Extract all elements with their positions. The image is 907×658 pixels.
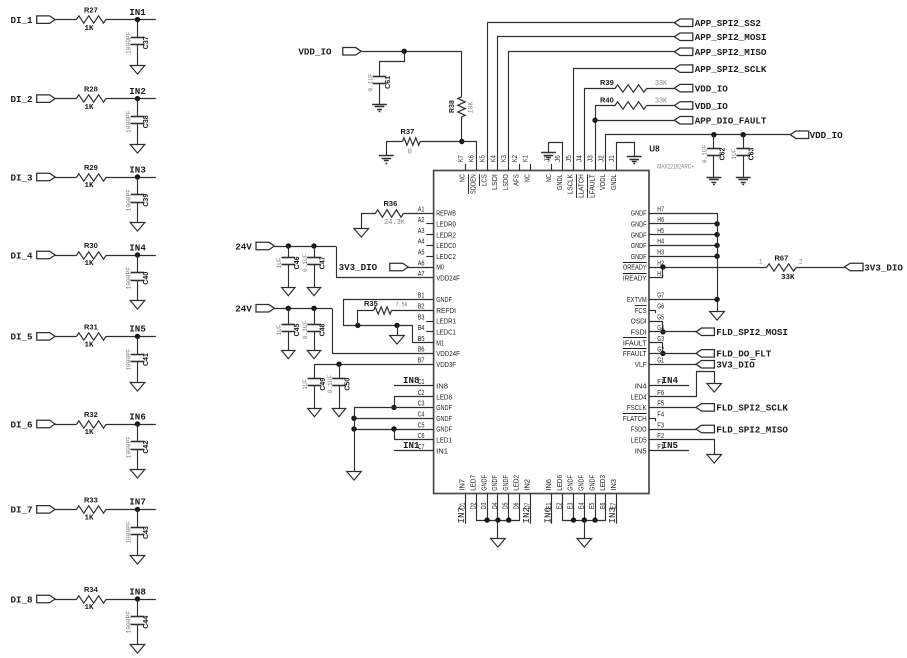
svg-text:G5: G5 (657, 314, 664, 321)
wire (549, 143, 563, 171)
svg-text:0.1UF: 0.1UF (302, 253, 309, 272)
svg-text:C4: C4 (418, 412, 425, 419)
svg-text:IN5: IN5 (662, 440, 679, 451)
svg-text:B7: B7 (418, 358, 425, 365)
node IN7 (129, 497, 146, 512)
svg-text:K3: K3 (501, 155, 508, 162)
resistor R67 (759, 254, 803, 283)
svg-text:IN4: IN4 (662, 375, 679, 386)
svg-text:VDD3F: VDD3F (436, 360, 456, 369)
svg-text:A6: A6 (418, 260, 425, 267)
pin B7 VDD3F (418, 358, 457, 369)
wire (743, 156, 745, 178)
svg-text:B3: B3 (418, 314, 425, 321)
svg-text:1K: 1K (85, 604, 95, 612)
wire (137, 535, 139, 556)
svg-text:R28: R28 (84, 85, 98, 94)
part number MAX22192ARC+ (657, 164, 694, 170)
pin F5 FSCLK (627, 401, 664, 412)
net label 3V3_DIO (339, 262, 409, 273)
pin K4 LSDI (490, 155, 499, 190)
resistor R28 (76, 85, 106, 112)
net label 3V3_DIO (696, 360, 756, 371)
refdes U8 (649, 145, 660, 154)
svg-text:DI_5: DI_5 (11, 332, 34, 343)
capacitor C45 (276, 323, 301, 336)
svg-text:1000PF: 1000PF (125, 267, 132, 290)
svg-text:G6: G6 (657, 304, 664, 311)
pin B4 LEDC1 (418, 325, 456, 336)
svg-text:C44: C44 (143, 616, 150, 629)
ground (130, 301, 145, 310)
wire (584, 494, 586, 521)
capacitor C42 (125, 436, 150, 459)
pin B2 REFDI (418, 304, 456, 315)
svg-text:B2: B2 (418, 304, 425, 311)
pin H5 GNDF (631, 228, 664, 239)
port DI_7 (11, 505, 56, 516)
wire (354, 429, 434, 431)
net label IN5 (649, 440, 689, 451)
power tag VDD_IO (790, 130, 843, 141)
wire (288, 246, 290, 257)
junction (660, 329, 665, 334)
capacitor C63 (731, 147, 756, 160)
svg-text:DI_1: DI_1 (11, 15, 34, 26)
pin G2 FFAULT (623, 347, 664, 358)
svg-text:1000PF: 1000PF (125, 436, 132, 459)
wire (408, 267, 433, 269)
ground (710, 312, 725, 321)
wire (650, 268, 663, 278)
svg-text:R33: R33 (84, 495, 98, 504)
svg-text:1000PF: 1000PF (125, 31, 132, 54)
junction (660, 351, 665, 356)
svg-text:IREADY: IREADY (623, 274, 647, 283)
svg-text:M1: M1 (436, 338, 444, 347)
pin J1 GNDL (609, 155, 618, 190)
wire (55, 177, 77, 179)
pin F3 FSDO (631, 422, 664, 433)
capacitor C44 (125, 611, 150, 634)
junction (582, 517, 587, 522)
port DI_3 (11, 172, 56, 183)
wire (106, 336, 156, 338)
capacitor C37 (125, 31, 150, 54)
pin A1 REFWB (418, 206, 456, 217)
svg-text:GNDF: GNDF (490, 475, 499, 491)
wire (647, 105, 675, 107)
svg-text:0.1UF: 0.1UF (302, 320, 309, 339)
svg-text:LEDR1: LEDR1 (436, 317, 456, 326)
svg-text:C45: C45 (294, 323, 301, 336)
svg-text:LFAULT: LFAULT (587, 174, 596, 198)
junction (459, 139, 464, 144)
wire (106, 424, 156, 426)
svg-text:GNDL: GNDL (609, 174, 618, 190)
svg-text:GNDF: GNDF (566, 475, 575, 491)
svg-text:FLD_DO_FLT: FLD_DO_FLT (716, 349, 772, 360)
pin C2 LED8 (418, 390, 452, 401)
svg-text:A4: A4 (418, 239, 425, 246)
svg-text:3V3_DIO: 3V3_DIO (864, 262, 903, 273)
wire (477, 494, 520, 521)
pin E1 IN6 (544, 479, 553, 509)
svg-text:C47: C47 (320, 256, 327, 269)
wire (574, 69, 675, 171)
junction (286, 243, 291, 248)
svg-text:10K: 10K (467, 102, 474, 114)
wire (137, 599, 139, 617)
svg-text:VDD24F: VDD24F (436, 349, 460, 358)
wire (713, 156, 715, 178)
svg-text:A2: A2 (418, 217, 425, 224)
svg-text:GNDF: GNDF (436, 403, 452, 412)
svg-text:24V: 24V (235, 304, 252, 315)
wire (796, 267, 845, 269)
wire (649, 223, 717, 225)
net label 3V3_DIO (845, 262, 904, 273)
ground (130, 223, 145, 232)
wire (488, 23, 675, 171)
svg-text:B1: B1 (418, 293, 425, 300)
resistor R27 (76, 6, 106, 33)
svg-text:1UF: 1UF (276, 324, 283, 335)
wire (314, 264, 316, 287)
svg-text:R32: R32 (84, 410, 98, 419)
svg-text:GNDL: GNDL (555, 174, 564, 190)
port DI_8 (11, 594, 56, 605)
capacitor C38 (125, 110, 150, 133)
wire (595, 120, 674, 122)
svg-text:VDD_IO: VDD_IO (298, 47, 332, 58)
wire (650, 372, 715, 397)
wire (487, 494, 489, 521)
port DI_4 (11, 250, 56, 261)
pin E7 IN3 (609, 479, 618, 509)
svg-text:APP_SPI2_MISO: APP_SPI2_MISO (695, 47, 767, 58)
svg-text:G3: G3 (657, 336, 664, 343)
capacitor C40 (125, 267, 150, 290)
svg-text:LSCLK: LSCLK (566, 174, 575, 194)
junction (660, 264, 665, 269)
net label IN7 (456, 494, 467, 524)
ground (736, 178, 751, 185)
svg-text:1000PF: 1000PF (125, 611, 132, 634)
svg-text:IN1: IN1 (403, 440, 420, 451)
svg-text:F3: F3 (657, 422, 664, 429)
wire (573, 494, 575, 521)
svg-text:C43: C43 (143, 526, 150, 539)
pin E3 GNDF (566, 475, 575, 510)
wire (339, 386, 341, 408)
wire (137, 177, 139, 195)
svg-text:1K: 1K (85, 25, 95, 33)
ground (347, 472, 362, 481)
wire (137, 99, 139, 117)
pin B5 M1 (418, 336, 444, 347)
resistor R29 (76, 163, 106, 190)
pin H3 GNDF (631, 250, 664, 261)
svg-text:FCS: FCS (635, 306, 647, 315)
wire (137, 449, 139, 470)
svg-text:1K: 1K (85, 429, 95, 437)
pin F4 FLATCH (623, 412, 664, 423)
resistor R39 (600, 78, 668, 92)
pin H1 IREADY (623, 271, 664, 282)
junction (311, 306, 316, 311)
svg-text:J4: J4 (577, 155, 584, 162)
svg-text:B6: B6 (418, 347, 425, 354)
wire (508, 494, 510, 521)
wire (649, 234, 717, 236)
svg-text:C61: C61 (385, 76, 392, 89)
junction (592, 118, 597, 123)
svg-text:1K: 1K (85, 515, 95, 523)
svg-text:1000PF: 1000PF (125, 348, 132, 371)
junction (394, 323, 399, 328)
capacitor C39 (125, 189, 150, 212)
svg-text:GNDF: GNDF (479, 475, 488, 491)
ground (130, 645, 145, 654)
svg-text:IFAULT: IFAULT (623, 338, 647, 347)
svg-text:C42: C42 (143, 441, 150, 454)
svg-text:R30: R30 (84, 241, 98, 250)
svg-text:J3: J3 (588, 155, 595, 162)
svg-text:R38: R38 (449, 100, 456, 113)
wire (337, 247, 434, 278)
wire (397, 325, 399, 335)
wire (386, 141, 402, 143)
wire (137, 280, 139, 301)
svg-text:1UF: 1UF (276, 257, 283, 268)
wire (743, 135, 745, 149)
svg-text:K2: K2 (512, 155, 519, 162)
wire (137, 624, 139, 645)
svg-text:F6: F6 (657, 390, 664, 397)
svg-text:1000PF: 1000PF (125, 521, 132, 544)
svg-text:LSDO: LSDO (501, 174, 510, 190)
junction (506, 517, 511, 522)
svg-text:LSDI: LSDI (490, 174, 499, 190)
wire (137, 336, 139, 354)
pin H6 GNDF (631, 217, 664, 228)
wire (649, 407, 696, 409)
svg-text:C50: C50 (345, 378, 352, 391)
svg-text:IN8: IN8 (403, 375, 420, 386)
svg-text:GNDF: GNDF (631, 220, 647, 229)
svg-text:B4: B4 (418, 325, 425, 332)
svg-text:IN3: IN3 (129, 164, 146, 175)
svg-text:0.1UF: 0.1UF (367, 73, 374, 92)
ground (379, 156, 394, 164)
wire (649, 299, 717, 301)
svg-text:GNDF: GNDF (631, 209, 647, 218)
wire (137, 124, 139, 145)
wire (137, 20, 139, 38)
resistor R35 (364, 299, 408, 314)
ground (308, 409, 321, 417)
svg-text:IN2: IN2 (523, 479, 532, 491)
wire (314, 364, 316, 379)
resistor R40 (600, 95, 668, 109)
pin A7 VDD24F (418, 271, 461, 282)
wire (462, 142, 477, 171)
wire (379, 84, 381, 104)
svg-text:1K: 1K (85, 104, 95, 112)
svg-text:1000PF: 1000PF (125, 110, 132, 133)
pin H4 GNDF (631, 239, 664, 250)
pin D4 GNDF (490, 475, 499, 510)
svg-text:LED8: LED8 (436, 392, 452, 401)
svg-text:GNDF: GNDF (436, 425, 452, 434)
wire (137, 255, 139, 273)
junction (711, 132, 716, 137)
port DI_6 (11, 419, 56, 430)
wire (461, 51, 463, 97)
svg-text:2: 2 (799, 259, 803, 266)
pin C3 GNDF (418, 401, 453, 412)
svg-text:K5: K5 (480, 155, 487, 162)
capacitor C46 (276, 256, 301, 269)
wire (55, 98, 77, 100)
junction (336, 362, 341, 367)
svg-text:IN8: IN8 (436, 382, 448, 391)
svg-text:DI_7: DI_7 (11, 505, 33, 516)
svg-text:REFDI: REFDI (436, 306, 456, 315)
pin D7 IN2 (523, 479, 532, 509)
wire (55, 599, 77, 601)
pin C1 IN8 (418, 379, 448, 390)
pin K1 NC (523, 155, 532, 182)
svg-text:IN8: IN8 (129, 586, 146, 597)
wire (596, 106, 616, 171)
wire (137, 202, 139, 223)
pin G1 VLF (635, 358, 664, 369)
svg-text:7.5K: 7.5K (396, 301, 408, 308)
svg-text:IN4: IN4 (129, 242, 146, 253)
node IN5 (129, 324, 146, 339)
port DI_2 (11, 94, 56, 105)
svg-text:1: 1 (759, 259, 763, 266)
wire (354, 418, 434, 420)
svg-text:FSCLK: FSCLK (627, 403, 647, 412)
svg-text:1000PF: 1000PF (125, 189, 132, 212)
ground (491, 539, 506, 548)
svg-text:VDDL: VDDL (598, 174, 607, 190)
wire (563, 494, 606, 521)
svg-text:3V3_DIO: 3V3_DIO (716, 360, 755, 371)
svg-text:IN3: IN3 (607, 507, 618, 524)
svg-text:NC: NC (458, 174, 467, 182)
svg-text:C38: C38 (143, 115, 150, 128)
resistor R34 (76, 585, 106, 612)
wire (288, 308, 290, 324)
svg-text:R67: R67 (775, 254, 789, 263)
junction (351, 426, 356, 431)
svg-text:R40: R40 (600, 95, 614, 104)
svg-text:IN4: IN4 (635, 382, 647, 391)
wire (314, 364, 433, 366)
port APP_SPI2_SS2 (674, 18, 760, 29)
node IN3 (129, 164, 146, 179)
svg-text:APP_SPI2_SS2: APP_SPI2_SS2 (695, 18, 761, 29)
junction (714, 297, 719, 302)
svg-text:A5: A5 (418, 250, 425, 257)
pin C4 GNDF (418, 412, 453, 423)
pin B3 LEDR1 (418, 314, 456, 325)
svg-text:33K: 33K (655, 97, 668, 105)
ground (307, 288, 320, 296)
svg-text:FSDO: FSDO (631, 425, 647, 434)
wire (649, 353, 696, 355)
svg-text:OSDI: OSDI (631, 317, 647, 326)
junction (714, 232, 719, 237)
svg-text:C39: C39 (143, 194, 150, 207)
svg-text:LEDC1: LEDC1 (436, 328, 456, 337)
svg-text:IN5: IN5 (129, 324, 146, 335)
svg-text:J6: J6 (555, 155, 562, 162)
wire (497, 520, 499, 538)
wire (509, 52, 675, 171)
wire (358, 311, 374, 326)
pin J2 VDDL (598, 155, 607, 190)
pin K5 LCS (479, 155, 488, 186)
junction (571, 517, 576, 522)
wire (288, 264, 290, 287)
wire (649, 331, 696, 333)
wire (137, 362, 139, 383)
wire (314, 332, 316, 351)
svg-text:GNDF: GNDF (436, 414, 452, 423)
resistor R31 (76, 322, 106, 349)
ground (307, 351, 320, 359)
svg-text:3V3_DIO: 3V3_DIO (339, 262, 378, 273)
svg-text:LED1: LED1 (436, 436, 452, 445)
junction (355, 323, 360, 328)
power tag VDD_IO (674, 101, 728, 112)
svg-text:VDD24F: VDD24F (436, 274, 460, 283)
pin F6 LED4 (631, 390, 664, 401)
ground (130, 470, 145, 479)
junction (741, 132, 746, 137)
wire (650, 343, 663, 354)
ground (707, 455, 722, 464)
svg-text:H5: H5 (657, 228, 664, 235)
pin E5 GNDF (587, 475, 596, 510)
wire (595, 494, 597, 521)
svg-text:R35: R35 (364, 299, 378, 308)
svg-text:B5: B5 (418, 336, 425, 343)
svg-text:C46: C46 (294, 256, 301, 269)
power tag VDD_IO (674, 83, 728, 94)
pin E6 LED3 (598, 475, 607, 509)
svg-text:IN6: IN6 (542, 507, 553, 524)
wire (55, 19, 77, 21)
svg-text:GNDF: GNDF (631, 252, 647, 261)
svg-text:EXTVM: EXTVM (627, 295, 647, 304)
svg-text:FLD_SPI2_MOSI: FLD_SPI2_MOSI (716, 327, 788, 338)
capacitor C48 (302, 320, 327, 339)
svg-text:0: 0 (408, 148, 413, 156)
junction (391, 426, 396, 431)
pin G3 IFAULT (623, 336, 664, 347)
svg-text:APP_SPI2_MOSI: APP_SPI2_MOSI (695, 32, 767, 43)
port APP_SPI2_MOSI (674, 32, 766, 43)
ground (627, 157, 642, 164)
junction (286, 306, 291, 311)
svg-text:FSDI: FSDI (631, 328, 647, 337)
